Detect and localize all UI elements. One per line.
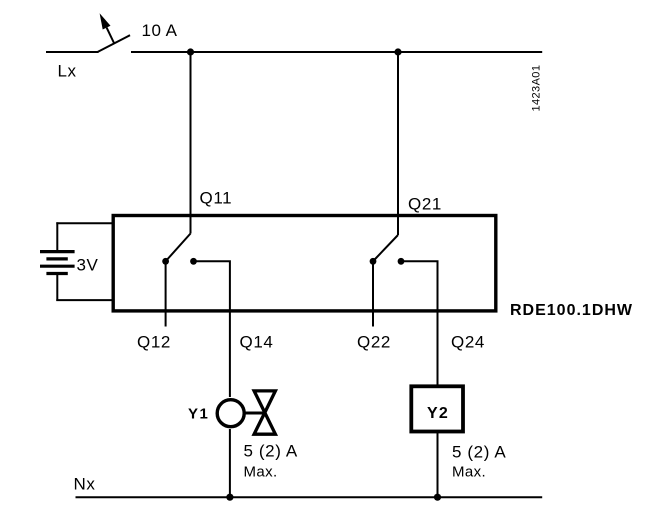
svg-text:Q14: Q14: [240, 333, 274, 352]
wire Q22 stub: [372, 261, 374, 326]
wire Q14 run: [194, 261, 230, 397]
svg-text:5 (2) A: 5 (2) A: [452, 443, 506, 462]
wire Lx rail right segment: [131, 51, 542, 53]
junction dot on Nx at Y2: [434, 494, 441, 501]
wire Y2 to Nx: [437, 432, 439, 497]
junction dot on Lx at Q11 drop: [187, 48, 194, 55]
junction dot on Nx at Y1: [226, 494, 233, 501]
junction dot on Lx at Q21 drop: [394, 48, 401, 55]
svg-text:RDE100.1DHW: RDE100.1DHW: [510, 302, 633, 319]
wire Q24 run: [401, 261, 438, 385]
switch S1 blade: [98, 35, 131, 52]
svg-text:Max.: Max.: [452, 464, 486, 481]
relay contact 1 blade: [166, 234, 190, 261]
svg-text:Max.: Max.: [244, 464, 278, 481]
wire Lx rail left segment: [46, 51, 99, 53]
wire Y1 to Nx: [229, 429, 231, 497]
svg-text:Nx: Nx: [74, 475, 96, 494]
svg-text:Q21: Q21: [408, 195, 442, 214]
actuator Y1 motor circle: [217, 400, 244, 427]
svg-text:5 (2) A: 5 (2) A: [244, 442, 298, 461]
controller box RDE100.1DHW: [113, 216, 496, 311]
relay contact 2 blade: [374, 235, 398, 261]
svg-text:Q22: Q22: [357, 333, 391, 352]
wire Q21 drop: [397, 52, 399, 235]
relay contact 1 terminal Q14 dot: [190, 258, 197, 265]
valve body (bowtie): [254, 391, 275, 434]
wire Nx rail: [76, 496, 543, 498]
wire Q11 drop: [190, 52, 192, 234]
battery B1 plates: [40, 252, 75, 274]
relay contact 2 terminal Q24 dot: [398, 258, 405, 265]
svg-text:Y2: Y2: [427, 405, 449, 422]
svg-text:10 A: 10 A: [142, 21, 178, 40]
svg-text:Q11: Q11: [200, 189, 233, 208]
switch S1 actuation arrow: [100, 13, 114, 43]
actuator Y2 box: [411, 386, 463, 431]
wire Y1 stub to valve: [245, 412, 265, 415]
wire Q12 stub: [165, 261, 167, 326]
svg-text:Q24: Q24: [451, 333, 485, 352]
svg-text:Q12: Q12: [137, 333, 171, 352]
svg-text:Y1: Y1: [188, 406, 209, 423]
relay contact 1 terminal Q12 dot: [162, 258, 169, 265]
relay contact 2 terminal Q22 dot: [370, 258, 377, 265]
svg-text:3V: 3V: [77, 256, 99, 275]
battery B1 wires: [56, 222, 113, 301]
svg-text:1423A01: 1423A01: [531, 65, 543, 112]
svg-text:Lx: Lx: [58, 62, 77, 81]
